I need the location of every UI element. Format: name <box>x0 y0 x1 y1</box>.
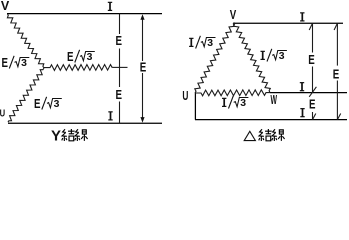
svg-text:U: U <box>0 107 5 119</box>
svg-text:V: V <box>1 0 10 13</box>
svg-text:E: E <box>309 96 316 111</box>
svg-text:Y: Y <box>51 127 61 144</box>
svg-text:E: E <box>116 33 123 48</box>
svg-text:W: W <box>270 93 277 107</box>
svg-text:V: V <box>230 8 237 22</box>
svg-text:E: E <box>140 59 147 74</box>
svg-text:U: U <box>182 89 188 103</box>
svg-text:E: E <box>116 87 123 102</box>
svg-text:E: E <box>308 52 315 67</box>
svg-text:E: E <box>333 67 340 82</box>
